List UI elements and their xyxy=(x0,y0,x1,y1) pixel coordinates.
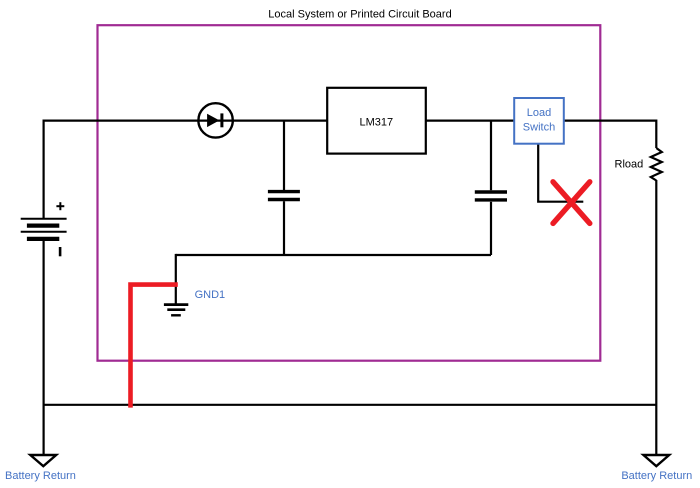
battery return arrow (left) xyxy=(30,455,56,466)
svg-text:Battery Return: Battery Return xyxy=(621,470,692,482)
wire: output cap C2 to ground rail xyxy=(490,202,492,255)
svg-text:Rload: Rload xyxy=(615,159,644,171)
load switch U2 box xyxy=(514,98,564,144)
battery return arrow (right) xyxy=(643,455,669,466)
wire: battery + up and across to LM317 input xyxy=(44,121,328,219)
wire: Load Switch ground pin (broken) xyxy=(538,144,583,202)
battery BT1 xyxy=(21,219,67,239)
wire: battery - down to battery return (left vertical) xyxy=(42,239,44,455)
svg-text:LM317: LM317 xyxy=(359,116,393,128)
wire: input cap C1 branch from top rail xyxy=(283,121,285,190)
red fault wire to GND1 xyxy=(131,285,178,408)
regulator U1 LM317 box xyxy=(327,88,426,154)
svg-text:Switch: Switch xyxy=(523,122,555,134)
svg-text:Battery Return: Battery Return xyxy=(5,470,76,482)
battery plus label xyxy=(56,202,64,210)
resistor Rload zigzag xyxy=(651,148,662,181)
capacitor C1 xyxy=(268,192,300,200)
wire: output cap C2 branch from rail xyxy=(490,121,492,191)
wire: local ground rail xyxy=(176,254,491,256)
capacitor C2 xyxy=(475,192,507,200)
red X broken-connection mark xyxy=(553,182,590,224)
ground symbol GND1 xyxy=(164,305,188,316)
wire: Rload bottom to battery return (right vertical) xyxy=(655,180,657,455)
PCB boundary box (purple) xyxy=(98,25,601,361)
wire: ground rail to GND1 symbol xyxy=(175,254,177,304)
wire: bottom return rail xyxy=(44,404,657,406)
svg-text:GND1: GND1 xyxy=(195,289,226,301)
wire: Load Switch output to Rload top xyxy=(564,121,657,148)
svg-text:Local System or Printed Circui: Local System or Printed Circuit Board xyxy=(268,9,451,21)
wire: input cap C1 to ground rail xyxy=(283,201,285,255)
battery minus label xyxy=(59,247,62,256)
wire: LM317 output to Load Switch input xyxy=(426,119,514,121)
diode D1 (circled) xyxy=(198,103,232,137)
svg-text:Load: Load xyxy=(527,107,551,119)
